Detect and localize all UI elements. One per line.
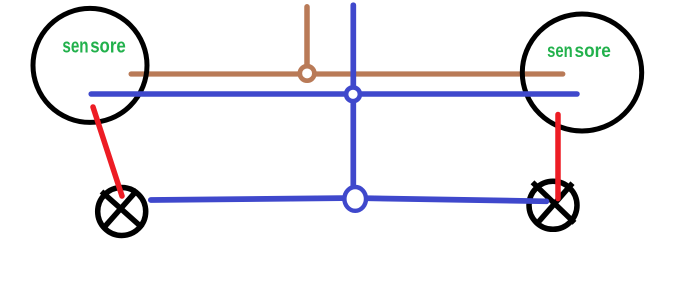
wire: red link left (sensor S1 to lamp L1) (93, 107, 122, 196)
node: blue junction ring (bottom) (344, 187, 366, 211)
wire: brown vertical drop (phase feed) (304, 7, 310, 68)
lamp L1 (left, circle with X) (98, 188, 146, 236)
label "sensore" (left sensor) (62, 35, 125, 57)
wire: blue horizontal top bus (91, 91, 577, 97)
node: blue junction ring (top) (346, 87, 360, 101)
wire: brown horizontal bus (131, 71, 563, 76)
lamp L2 (right, circle with X) (529, 181, 577, 229)
label "sensore" (right sensor) (547, 41, 611, 62)
sensor S1 (left circle) (33, 8, 147, 122)
node: brown junction ring (300, 66, 315, 81)
svg-text:sen: sen (547, 41, 573, 62)
sensor S2 (right circle) (522, 14, 641, 131)
svg-text:sen: sen (62, 35, 88, 57)
svg-text:sore: sore (575, 41, 611, 62)
wire: red link right (sensor S2 to lamp L2) (555, 115, 561, 199)
wire: blue vertical drop (neutral feed) (350, 5, 356, 197)
svg-text:sore: sore (90, 35, 126, 57)
wire: blue horizontal bottom bus (151, 198, 547, 201)
